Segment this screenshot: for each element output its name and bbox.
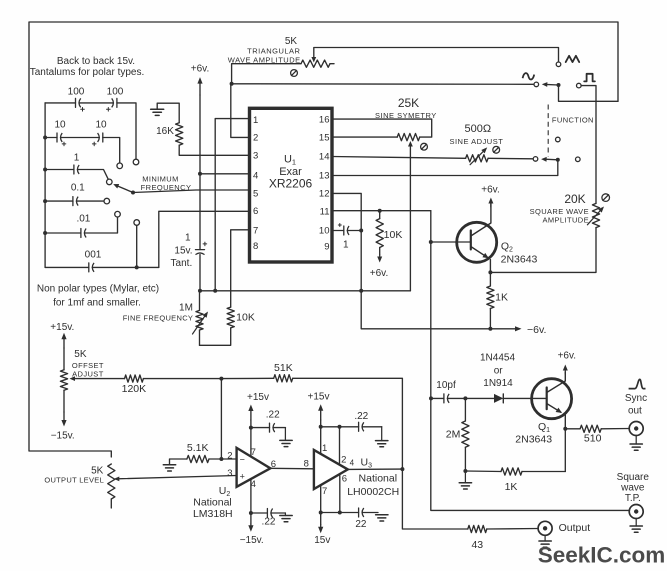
svg-text:+15v: +15v	[247, 392, 269, 403]
switch contact: triangle (pole 1)	[556, 62, 561, 67]
switch arm pole 2	[541, 157, 558, 162]
label: pin6 U2	[271, 459, 276, 470]
diode 1N4454/1N914	[494, 394, 503, 403]
svg-text:1: 1	[185, 233, 191, 244]
ground: 2M bottom	[459, 471, 471, 489]
label: U3	[361, 457, 373, 470]
wire: diode to Q1 base	[503, 397, 546, 399]
wire: 43 to output jack	[487, 528, 538, 531]
wire: pole2 common to pin 13	[332, 160, 558, 176]
label: T.P.	[625, 493, 641, 504]
svg-text:15: 15	[319, 133, 330, 144]
svg-text:25K: 25K	[398, 96, 419, 110]
svg-text:SINE ADJUST: SINE ADJUST	[449, 137, 503, 146]
wire: 10pf to diode node	[448, 397, 466, 399]
svg-text:0.1: 0.1	[71, 182, 85, 193]
wire: ground rail under IC	[200, 290, 410, 292]
switch contact: 100 caps	[133, 159, 139, 165]
label: OUTPUT LEVEL	[44, 475, 104, 484]
node: U3 pin1/cap	[319, 425, 323, 429]
svg-text:100: 100	[107, 87, 124, 98]
svg-text:Sync: Sync	[625, 393, 647, 404]
label: 10pf	[436, 380, 456, 391]
label: 10 (right cap row2)	[95, 120, 107, 131]
node: 10pf node on T.P. line	[429, 396, 433, 400]
label: Output	[559, 522, 591, 534]
capacitor .01 row5	[45, 229, 86, 238]
connector: Output jack	[538, 521, 552, 535]
power: +15v arrow (offset)	[50, 322, 74, 348]
label: LM318H	[193, 508, 233, 520]
wire: pin 7 stub to fine-frequency 10K	[231, 230, 250, 307]
capacitor 10 row2 left	[45, 133, 62, 142]
label: pin2 U3	[341, 455, 346, 466]
svg-text:16K: 16K	[156, 126, 174, 137]
capacitor .22 (U2 bottom)	[251, 509, 286, 518]
wire: row1 to switch contact	[117, 103, 136, 159]
note: back-to-back tantalum text	[30, 56, 145, 78]
node: row6 / contact riser junction	[135, 265, 139, 269]
connector: Sync out jack	[629, 422, 643, 436]
label: 10K (pin11)	[384, 229, 403, 241]
svg-text:Square: Square	[617, 472, 650, 483]
op IC U1 XR2206 body	[250, 108, 333, 262]
switch contact: sine (pole 2)	[533, 157, 538, 162]
node: 2M bottom node	[463, 469, 467, 473]
switch contact: 0.1 cap	[104, 198, 110, 204]
wire: top rail from function switch loop, left side down to output level pot	[29, 22, 618, 457]
svg-text:2N3643: 2N3643	[501, 253, 538, 265]
wire: tant cap to ground rail	[199, 255, 201, 291]
svg-text:TRIANGULAR: TRIANGULAR	[247, 46, 300, 55]
capacitor 100 row1 right	[79, 98, 117, 107]
svg-text:13: 13	[319, 171, 330, 182]
svg-text:5: 5	[253, 188, 258, 199]
svg-text:+15v.: +15v.	[50, 322, 74, 333]
label: 20K	[564, 192, 585, 206]
svg-text:5K: 5K	[74, 349, 87, 360]
label: 510	[584, 433, 602, 445]
svg-text:15v.: 15v.	[174, 245, 192, 256]
label: 500&#937;	[465, 123, 492, 135]
wire: U3 pin2 riser	[339, 427, 341, 463]
power: -15v arrow (U2)	[240, 524, 264, 546]
label: pin7 U2	[251, 447, 256, 458]
node: feedback node (120K/51K/pin2)	[219, 377, 223, 381]
label: .22 (U2 top)	[266, 409, 280, 420]
svg-text:4: 4	[350, 458, 355, 467]
svg-text:10: 10	[95, 120, 107, 131]
wire: row4 to switch contact	[77, 200, 104, 202]
label: 5K (offset)	[74, 349, 87, 360]
svg-text:−: −	[240, 455, 245, 465]
label: Exar	[279, 166, 302, 178]
wire: 5.1K to pin2 node	[209, 458, 237, 460]
label: pin4 U2	[251, 479, 256, 490]
node: 5K-left / sine wire junction	[230, 82, 234, 86]
wire: row2 to switch contact	[103, 138, 120, 164]
node: U3 pin6/cap branch	[338, 511, 342, 515]
wire: U2 out to U3 in	[270, 467, 314, 470]
capacitor 10pf	[444, 394, 449, 403]
label: pin2 U2	[227, 450, 232, 461]
polarity + row1 right	[107, 108, 111, 112]
capacitor .22 (U2 top)	[251, 423, 286, 432]
capacitor 1mf 15v tantalum	[196, 250, 205, 255]
wire: pin 10 stub	[332, 230, 344, 232]
label: 1N914	[483, 378, 513, 389]
capacitor .22 (U3 top)	[321, 422, 382, 431]
node: U2 pin 2 node	[219, 457, 223, 461]
node: rail / pin1 wire	[213, 289, 217, 293]
power: +6v arrow (top left)	[191, 64, 209, 96]
svg-text:XR2206: XR2206	[269, 177, 313, 191]
node: diode/2M node	[463, 396, 467, 400]
wire: 5K right stub	[330, 63, 334, 65]
label: 120K	[122, 383, 147, 395]
label: National (U2)	[193, 497, 232, 509]
svg-text:10: 10	[54, 120, 66, 131]
svg-text:1K: 1K	[505, 481, 518, 493]
pin 2 label U1	[253, 133, 258, 144]
node: U3 output node	[400, 467, 404, 471]
label: XR2206	[269, 177, 313, 191]
wire: U3 pin1 vertical	[320, 420, 322, 454]
label: 2N3643 (Q1)	[515, 433, 552, 445]
wire: row3 to switch contact	[78, 170, 109, 180]
switch gang dashed link	[547, 105, 549, 157]
wire: pin 4 stub	[200, 173, 250, 175]
svg-text:20K: 20K	[564, 192, 585, 206]
label: Square	[617, 472, 650, 483]
svg-text:51K: 51K	[274, 362, 293, 374]
svg-text:+: +	[240, 472, 245, 482]
svg-text:1M: 1M	[179, 303, 193, 314]
svg-text:7: 7	[253, 226, 258, 237]
label: 1 / 15v. / Tant.	[171, 233, 193, 270]
power: +15v arrow (U3)	[308, 392, 330, 421]
wire: 510 to sync jack	[601, 428, 629, 430]
label: SINE SYMETRY	[375, 111, 437, 120]
svg-text:9: 9	[324, 242, 329, 253]
note: non-polar cap text	[37, 284, 159, 309]
svg-text:FREQUENCY: FREQUENCY	[141, 183, 192, 192]
Q1 emitter	[547, 404, 566, 429]
capacitor 100 row1 left	[45, 98, 81, 107]
resistor 500 ohm sine adjust	[466, 155, 489, 162]
pin 5 label U1	[253, 188, 258, 199]
ground: U2 top cap	[280, 428, 292, 447]
label: 5.1K	[187, 442, 209, 454]
svg-text:6: 6	[342, 473, 347, 484]
node: 1K / -6v rail	[488, 327, 492, 331]
wire: U3 pin7 vertical	[320, 485, 322, 524]
ground: 16K top	[151, 109, 164, 115]
label: FINE FREQUENCY	[123, 313, 193, 322]
svg-text:2: 2	[227, 450, 232, 461]
resistor 10K (pin 11 pullup)	[376, 211, 383, 248]
label: ADJUST	[72, 369, 104, 378]
svg-text:Output: Output	[559, 522, 591, 534]
switch contact: triangle (pole 2)	[556, 137, 561, 142]
label: or	[494, 365, 504, 376]
label: SQUARE WAVE	[530, 207, 589, 216]
waveform icon: sync pulse	[629, 379, 646, 388]
label: SINE ADJUST	[449, 137, 503, 146]
node: U3 pin2/cap branch	[338, 425, 342, 429]
svg-text:1: 1	[322, 443, 327, 454]
svg-text:Tantalums for polar types.: Tantalums for polar types.	[30, 67, 145, 78]
capacitor 0.1 row4	[45, 197, 78, 206]
label: Q2	[501, 241, 513, 254]
label: 5K (output level)	[91, 466, 104, 477]
ground: sync jack	[630, 436, 642, 451]
node: function switch pole 2 common	[556, 158, 560, 162]
svg-text:+6v.: +6v.	[370, 268, 388, 279]
wire: switch pole to XR2206 pin 5	[133, 190, 250, 193]
svg-text:out: out	[628, 406, 642, 417]
label: MINIMUM	[142, 175, 179, 184]
svg-text:SeekIC.com: SeekIC.com	[538, 543, 666, 568]
trimmer symbol (25K)	[421, 143, 428, 150]
pin 9 label U1	[324, 242, 329, 253]
pin 13 label U1	[319, 171, 330, 182]
switch arm pole 1	[542, 82, 559, 87]
resistor 1M fine frequency	[196, 291, 203, 346]
resistor 10K fine frequency	[227, 307, 234, 328]
Q2 collector	[471, 202, 491, 236]
label: .01 (cap row5)	[76, 214, 90, 225]
label: WAVE AMPLITUDE	[228, 56, 301, 65]
capacitor 10 row2 right	[61, 133, 103, 142]
wire: pin 15 stub	[332, 136, 397, 138]
wire: U2 pin4 vertical	[250, 479, 252, 525]
label: 1M	[179, 303, 193, 314]
svg-text:+6v.: +6v.	[191, 64, 209, 75]
label: minus U2	[240, 455, 245, 465]
wire: 51K to U3 output node	[293, 378, 403, 469]
wire: pin 11 down to Q2 base and T.P. line	[431, 211, 629, 511]
svg-text:Non polar types (Mylar, etc): Non polar types (Mylar, etc)	[37, 284, 159, 295]
wire: U2 pin7 vertical	[250, 420, 252, 457]
label: wave	[620, 483, 645, 494]
wire: +6v vertical to pin 4 and tant cap	[199, 95, 201, 250]
polarity + row2 right	[92, 142, 96, 146]
label: .22 (U2 bottom)	[262, 516, 276, 527]
label: 2M	[446, 429, 461, 441]
label: National (U3)	[359, 473, 398, 485]
label: U2	[219, 485, 231, 498]
potentiometer 5K offset adjust	[60, 348, 67, 412]
op-amp U3 triangle	[314, 450, 348, 489]
ground: output jack	[539, 535, 551, 547]
svg-text:4: 4	[253, 171, 258, 182]
pin 8 label U1	[253, 241, 258, 252]
label: pin3 U2	[227, 468, 232, 479]
svg-text:14: 14	[319, 152, 330, 163]
wire: U3 output	[348, 468, 403, 470]
transistor Q1 2N3643 body	[532, 379, 572, 419]
label: 25K	[398, 96, 419, 110]
op-amp U2 triangle	[237, 448, 271, 487]
pot arrow 20K	[587, 207, 604, 225]
switch contact: 10 caps	[117, 163, 123, 169]
capacitor .22 (U3 bottom)	[321, 508, 364, 517]
wire: pin 12 to ground rail and -6v	[332, 193, 520, 328]
svg-text:1: 1	[343, 239, 349, 250]
label: 43	[471, 539, 483, 551]
svg-text:100: 100	[68, 87, 85, 98]
svg-text:.22: .22	[354, 411, 368, 422]
svg-text:10K: 10K	[236, 311, 255, 323]
node: rail / pin12 wire	[359, 289, 363, 293]
wire: emitter node to 510	[565, 428, 580, 430]
svg-text:T.P.: T.P.	[625, 493, 641, 504]
svg-text:12: 12	[319, 189, 330, 200]
node: pin11 / 10K junction	[378, 209, 382, 213]
polarity + row2 left	[62, 142, 66, 146]
svg-text:ADJUST: ADJUST	[72, 369, 104, 378]
wire: row5 to switch contact	[85, 217, 118, 233]
power: -15v arrow (offset)	[51, 412, 75, 441]
wire: row6 to pin 6 riser	[92, 266, 158, 268]
ground: 5.1K	[163, 465, 175, 471]
svg-text:.22: .22	[266, 409, 280, 420]
svg-text:LH0002CH: LH0002CH	[347, 486, 399, 498]
polarity + row1 left	[81, 108, 85, 112]
svg-text:Tant.: Tant.	[171, 258, 193, 269]
wire: gnd to 5.1K	[170, 459, 187, 465]
ground: U2 bottom cap	[280, 513, 292, 522]
node: bus junction row5	[43, 231, 47, 235]
svg-text:6: 6	[253, 206, 258, 217]
svg-text:2M: 2M	[446, 429, 461, 441]
svg-text:National: National	[193, 497, 232, 509]
wire: pole1 common to top loop	[559, 85, 619, 101]
switch contact: sine (pole 1)	[534, 82, 539, 87]
resistor 51K	[221, 375, 292, 382]
node: U3 pin7/cap	[319, 511, 323, 515]
svg-text:2: 2	[253, 133, 258, 144]
svg-text:+6v.: +6v.	[558, 351, 576, 362]
label: 16K	[156, 126, 174, 137]
label: 1K (Q2)	[495, 292, 508, 304]
svg-text:001: 001	[85, 250, 102, 261]
wire: pin 6 stub	[159, 211, 250, 267]
wire: feedback node down to U2 pin 2	[220, 379, 222, 459]
pin 3 label U1	[253, 151, 258, 162]
svg-text:for 1mf and smaller.: for 1mf and smaller.	[53, 298, 141, 309]
svg-text:7: 7	[322, 486, 327, 497]
pin 10 label U1	[319, 226, 330, 237]
svg-text:5.1K: 5.1K	[187, 442, 209, 454]
Q1 base bar	[546, 388, 548, 410]
power: -15v arrow (U3)	[314, 525, 330, 547]
capacitor 1mf (pin 10)	[344, 226, 349, 235]
label: 100 (left cap row1)	[68, 87, 85, 98]
node: bus junction row3	[43, 168, 47, 172]
wire: capacitor bank left bus	[44, 103, 46, 268]
svg-text:3: 3	[227, 468, 232, 479]
label: 1K (Q1)	[505, 481, 518, 493]
svg-text:wave: wave	[620, 483, 645, 494]
wiper: 25K to ground rail	[408, 141, 413, 291]
trimmer symbol (500 ohm)	[493, 146, 500, 153]
resistor 25K sine symmetry	[397, 134, 420, 141]
label: 0.1 (cap row4)	[71, 182, 85, 193]
label: TRIANGULAR	[247, 46, 300, 55]
wire: to 10pf	[431, 397, 444, 399]
node: U2 pin4/cap	[249, 511, 253, 515]
wire: 5K left terminal down to pin 2	[232, 64, 301, 84]
switch contact: square (pole 2)	[576, 157, 581, 162]
resistor 2M	[462, 398, 469, 471]
wire: pin 11 line	[332, 210, 431, 212]
svg-text:FINE FREQUENCY: FINE FREQUENCY	[123, 313, 193, 322]
wire: output node down to 43	[402, 469, 467, 529]
wire: 120K to feedback node	[143, 378, 221, 380]
pin 16 label U1	[319, 115, 330, 126]
svg-text:.01: .01	[76, 214, 90, 225]
node: U2 pin7/cap	[249, 426, 253, 430]
label: FUNCTION	[552, 116, 594, 125]
Q2 base bar	[470, 231, 472, 250]
potentiometer 5K triangular wave amplitude	[301, 60, 330, 67]
svg-text:−6v.: −6v.	[527, 324, 546, 336]
connector: Square wave T.P. jack	[629, 505, 643, 519]
potentiometer 20K square wave amplitude	[592, 203, 599, 227]
label: -6v.	[527, 324, 546, 336]
label: 5K (triangular)	[285, 36, 298, 47]
node: minimum frequency pole	[131, 191, 135, 195]
label: 100 (right cap row1)	[107, 87, 124, 98]
wire: 20K bottom to Q2 emitter node	[490, 228, 596, 273]
waveform icon: sine	[523, 73, 535, 79]
label: out	[628, 406, 642, 417]
wire: pin 2 stub from 5K pot	[231, 84, 250, 137]
power: +6v arrow below 10K	[370, 248, 388, 280]
resistor 1K (Q2 emitter)	[487, 272, 494, 328]
label: Sync	[625, 393, 647, 404]
waveform icon: square wave	[584, 74, 595, 82]
wiper: offset pot	[70, 376, 125, 381]
pin 6 label U1	[253, 206, 258, 217]
svg-text:500Ω: 500Ω	[465, 123, 492, 135]
label: FREQUENCY	[141, 183, 192, 192]
label: 1 (cap row3)	[74, 152, 80, 163]
svg-text:120K: 120K	[122, 383, 147, 395]
label: 1 (pin10 cap)	[343, 239, 349, 250]
wire: 25K to pin 16	[332, 119, 432, 137]
pot arrow 1M	[193, 312, 209, 335]
node: rail / tant	[198, 289, 202, 293]
svg-text:43: 43	[471, 539, 483, 551]
label: LH0002CH	[347, 486, 399, 498]
capacitor 1 row3	[45, 165, 79, 174]
svg-text:10pf: 10pf	[436, 380, 456, 391]
potentiometer 5K output level	[108, 464, 115, 508]
node: pin10 cap / pin12 line	[359, 229, 363, 233]
node: bus junction row4	[43, 199, 47, 203]
power: +15v arrow (U2)	[247, 392, 269, 420]
pin 14 label U1	[319, 152, 330, 163]
wire: 500 ohm to pole 2 contact	[488, 157, 533, 160]
capacitor 001 row6	[45, 263, 94, 272]
label: plus U2	[240, 472, 245, 482]
resistor 5.1K	[187, 455, 209, 462]
svg-text:1: 1	[74, 152, 80, 163]
label: 22 (U3 bottom)	[355, 519, 367, 530]
